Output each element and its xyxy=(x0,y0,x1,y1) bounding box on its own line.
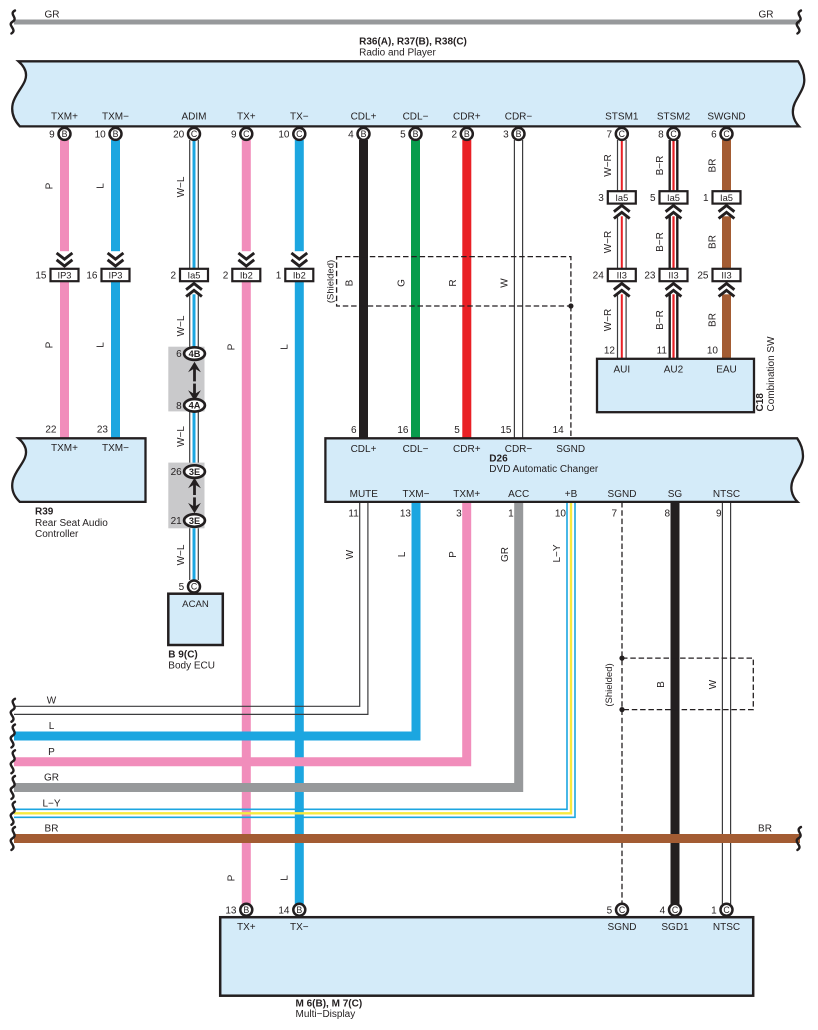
svg-text:TX−: TX− xyxy=(290,112,309,123)
connector 6 4B xyxy=(184,347,205,360)
svg-text:L: L xyxy=(280,875,291,881)
svg-text:7: 7 xyxy=(611,509,617,520)
svg-text:B: B xyxy=(345,279,356,286)
svg-text:Ia5: Ia5 xyxy=(188,270,201,280)
radio pin 5(B) CDL&#8722; xyxy=(410,128,422,140)
wire TXM+ P (radio to R39) xyxy=(60,140,69,438)
svg-text:IP3: IP3 xyxy=(58,270,72,280)
svg-text:CDR+: CDR+ xyxy=(453,112,481,123)
svg-text:1: 1 xyxy=(508,509,514,520)
svg-text:4: 4 xyxy=(660,905,666,916)
svg-text:GR: GR xyxy=(500,547,511,562)
svg-text:11: 11 xyxy=(348,509,359,520)
svg-text:21: 21 xyxy=(171,516,183,527)
svg-text:26: 26 xyxy=(171,467,183,478)
radio pin 8(C) STSM2 xyxy=(668,128,680,140)
svg-text:P: P xyxy=(227,874,238,881)
svg-text:GR: GR xyxy=(44,773,59,784)
break symbol W left xyxy=(11,699,15,722)
arrow into Ia5 xyxy=(612,204,631,217)
wire STSM1 W-R (C18 to radio) xyxy=(617,140,619,359)
svg-text:TX+: TX+ xyxy=(237,922,256,933)
break symbol BR left xyxy=(11,827,15,850)
svg-text:C: C xyxy=(619,129,626,139)
wire SGND shield drain (D26 to Multi-Display, dashed) xyxy=(621,502,623,904)
svg-text:MUTE: MUTE xyxy=(350,489,379,500)
svg-text:STSM1: STSM1 xyxy=(605,112,639,123)
svg-text:ACAN: ACAN xyxy=(182,599,209,610)
svg-text:CDR+: CDR+ xyxy=(453,444,481,455)
connector 1 Ia5 at x=726.5 xyxy=(713,191,741,203)
break symbol L left xyxy=(11,725,15,748)
svg-text:P: P xyxy=(45,182,56,189)
svg-text:Ib2: Ib2 xyxy=(293,270,306,280)
arrow into II3 xyxy=(664,282,683,295)
svg-text:C: C xyxy=(243,129,250,139)
svg-text:6: 6 xyxy=(176,349,182,360)
break symbol GR right xyxy=(797,11,801,34)
radio pin 3(B) CDR&#8722; xyxy=(513,128,525,140)
Multi-Display pin 14(B) TX- xyxy=(293,904,305,916)
wire SWGND BR (radio to C18) xyxy=(722,140,731,359)
arrow into II3 xyxy=(717,282,736,295)
connector 26 3E xyxy=(184,465,205,478)
svg-text:L: L xyxy=(280,344,291,350)
component C18 Combination SW xyxy=(597,359,754,412)
svg-text:L: L xyxy=(397,551,408,557)
svg-text:8: 8 xyxy=(664,509,670,520)
svg-text:BR: BR xyxy=(708,235,719,249)
svg-text:22: 22 xyxy=(45,425,57,436)
svg-text:13: 13 xyxy=(225,905,237,916)
svg-text:II3: II3 xyxy=(668,270,678,280)
svg-text:GR: GR xyxy=(45,10,60,21)
component B 9(C) Body ECU ACAN box xyxy=(168,594,223,645)
wire TX- L (radio to Multi-Display) xyxy=(295,140,304,904)
svg-text:9: 9 xyxy=(716,509,722,520)
svg-text:C: C xyxy=(619,905,626,915)
svg-text:SG: SG xyxy=(668,489,683,500)
svg-text:CDL−: CDL− xyxy=(403,444,429,455)
svg-text:5: 5 xyxy=(607,905,613,916)
svg-text:1: 1 xyxy=(711,905,717,916)
svg-text:SGND: SGND xyxy=(556,444,585,455)
svg-text:STSM2: STSM2 xyxy=(657,112,691,123)
junction dot shield top xyxy=(619,656,624,661)
connector block 3E/3E gray background xyxy=(168,463,204,529)
arrow into Ib2 (TX+) xyxy=(237,251,256,268)
radio pin 9(B) TXM+ xyxy=(59,128,71,140)
svg-text:5: 5 xyxy=(179,582,185,593)
svg-text:16: 16 xyxy=(86,271,98,282)
svg-text:C: C xyxy=(723,129,730,139)
svg-text:EAU: EAU xyxy=(716,364,737,375)
svg-text:3E: 3E xyxy=(189,467,200,477)
connector 8 4A xyxy=(184,399,205,412)
svg-text:15: 15 xyxy=(35,271,47,282)
svg-text:13: 13 xyxy=(400,509,412,520)
svg-text:Combination SW: Combination SW xyxy=(766,336,777,412)
svg-text:B: B xyxy=(516,129,522,139)
radio pin 2(B) CDR+ xyxy=(461,128,473,140)
wire STSM2 B-R (C18 to radio) xyxy=(669,140,671,359)
connector 1 Ib2 on TX- xyxy=(285,269,313,281)
connector 2 Ib2 on TX+ xyxy=(232,269,260,281)
svg-text:C: C xyxy=(191,582,198,592)
svg-text:12: 12 xyxy=(604,346,616,357)
svg-text:W−L: W−L xyxy=(176,544,187,565)
svg-text:4: 4 xyxy=(348,130,354,141)
Body ECU pin 5(C) ACAN xyxy=(188,581,200,593)
arrow into Ia5 xyxy=(717,204,736,217)
Multi-Display pin 1(C) NTSC xyxy=(721,904,733,916)
connector 3 Ia5 at x=621.8 xyxy=(608,191,636,203)
svg-text:16: 16 xyxy=(397,425,409,436)
svg-text:C: C xyxy=(672,905,679,915)
svg-text:4B: 4B xyxy=(189,349,201,359)
wire ADIM W-L (radio to Body ECU) xyxy=(189,140,191,354)
radio pin 10(B) TXM&#8722; xyxy=(110,128,122,140)
svg-text:20: 20 xyxy=(173,130,185,141)
svg-text:8: 8 xyxy=(658,130,664,141)
svg-text:TXM−: TXM− xyxy=(403,489,430,500)
break symbol P left xyxy=(11,750,15,773)
svg-text:10: 10 xyxy=(95,130,107,141)
connector 5 Ia5 at x=673.5 xyxy=(660,191,688,203)
wire +B L-Y (D26 to left break) xyxy=(14,502,567,809)
svg-text:B−R: B−R xyxy=(655,310,666,330)
svg-text:Ia5: Ia5 xyxy=(667,193,680,203)
arrow into II3 xyxy=(612,282,631,295)
Multi-Display pin 4(C) SGD1 xyxy=(669,904,681,916)
svg-text:4A: 4A xyxy=(189,401,201,411)
arrow into IP3 (TXM+) xyxy=(55,251,74,268)
svg-text:10: 10 xyxy=(555,509,567,520)
component R39 Rear Seat Audio Controller xyxy=(12,438,145,502)
svg-text:10: 10 xyxy=(707,346,719,357)
svg-text:3E: 3E xyxy=(189,516,200,526)
wire NTSC W (D26 to Multi-Display) xyxy=(721,502,723,904)
arrow into IP3 (TXM-) xyxy=(106,251,125,268)
svg-text:3: 3 xyxy=(503,130,509,141)
svg-text:B: B xyxy=(296,905,302,915)
shield box around CDL/CDR wires (dashed) xyxy=(337,257,571,306)
connector 25 II3 at x=726.5 xyxy=(713,269,741,281)
svg-text:W−L: W−L xyxy=(176,315,187,336)
svg-text:TX+: TX+ xyxy=(237,112,256,123)
svg-text:25: 25 xyxy=(697,271,709,282)
svg-text:SGD1: SGD1 xyxy=(661,922,689,933)
svg-text:SWGND: SWGND xyxy=(707,112,745,123)
svg-text:14: 14 xyxy=(553,425,565,436)
svg-text:B−R: B−R xyxy=(655,232,666,252)
component D26 DVD Automatic Changer xyxy=(325,438,803,502)
radio pin 10(C) TX&#8722; xyxy=(293,128,305,140)
break symbol GR left xyxy=(11,11,15,34)
svg-text:BR: BR xyxy=(708,159,719,173)
arrow up to 3E xyxy=(188,478,201,488)
wire TXM+ P (D26 to left break) xyxy=(14,502,467,762)
Multi-Display pin 13(B) TX+ xyxy=(240,904,252,916)
svg-text:R: R xyxy=(448,279,459,286)
svg-text:ACC: ACC xyxy=(508,489,529,500)
connector block 4B/4A gray background xyxy=(168,347,204,412)
svg-text:Ia5: Ia5 xyxy=(720,193,733,203)
svg-text:2: 2 xyxy=(223,271,229,282)
svg-text:L: L xyxy=(49,721,55,732)
svg-text:BR: BR xyxy=(45,824,59,835)
svg-text:B: B xyxy=(62,129,68,139)
svg-text:B: B xyxy=(413,129,419,139)
svg-text:ADIM: ADIM xyxy=(182,112,207,123)
radio pin 6(C) SWGND xyxy=(721,128,733,140)
svg-text:11: 11 xyxy=(657,346,668,357)
svg-text:DVD Automatic Changer: DVD Automatic Changer xyxy=(489,464,599,475)
junction dot shield drain xyxy=(568,303,573,308)
svg-text:D26: D26 xyxy=(489,453,508,464)
svg-text:24: 24 xyxy=(593,271,605,282)
svg-text:2: 2 xyxy=(451,130,457,141)
svg-text:B: B xyxy=(464,129,470,139)
wire shield drain to D26 pin 14 (dashed) xyxy=(570,306,572,438)
radio pin 4(B) CDL+ xyxy=(358,128,370,140)
svg-text:TX−: TX− xyxy=(290,922,309,933)
svg-text:15: 15 xyxy=(500,425,512,436)
svg-text:AUI: AUI xyxy=(613,364,630,375)
svg-text:CDL−: CDL− xyxy=(403,112,429,123)
arrow into Ia5 (ADIM) xyxy=(185,282,204,295)
svg-text:3: 3 xyxy=(598,193,604,204)
svg-text:L−Y: L−Y xyxy=(42,799,60,810)
svg-text:P: P xyxy=(45,341,56,348)
svg-text:B: B xyxy=(361,129,367,139)
svg-text:B: B xyxy=(243,905,249,915)
wire TX+ P (radio to Multi-Display) xyxy=(242,140,251,904)
connector 2 Ia5 on ADIM xyxy=(180,269,208,281)
svg-text:B 9(C): B 9(C) xyxy=(168,650,197,661)
svg-text:CDR−: CDR− xyxy=(505,444,533,455)
arrow into Ia5 xyxy=(664,204,683,217)
svg-text:Rear Seat Audio: Rear Seat Audio xyxy=(35,518,108,529)
wire ACC GR (D26 to left break) xyxy=(14,502,519,788)
break symbol BR right xyxy=(797,827,801,850)
wire CDL- G (radio to D26) xyxy=(411,140,420,438)
wire BR ground bus (bottom) xyxy=(14,834,800,843)
junction dot shield bottom xyxy=(619,707,624,712)
svg-text:GR: GR xyxy=(759,10,774,21)
wire CDL+ B (radio to D26) xyxy=(359,140,368,438)
arrow down to 4A xyxy=(188,390,201,400)
svg-text:1: 1 xyxy=(276,271,282,282)
arrow into Ib2 (TX-) xyxy=(290,251,309,268)
svg-text:23: 23 xyxy=(97,425,109,436)
svg-text:P: P xyxy=(48,747,55,758)
svg-text:W−L: W−L xyxy=(176,426,187,447)
svg-text:CDL+: CDL+ xyxy=(351,112,377,123)
svg-text:5: 5 xyxy=(400,130,406,141)
svg-text:W−R: W−R xyxy=(603,231,614,254)
svg-text:W: W xyxy=(47,696,57,707)
svg-text:CDL+: CDL+ xyxy=(351,444,377,455)
shield box around SG/NTSC wires (dashed) xyxy=(622,658,753,710)
svg-text:II3: II3 xyxy=(617,270,627,280)
svg-text:Ib2: Ib2 xyxy=(240,270,253,280)
wire CDR- W (radio to D26) xyxy=(513,140,515,438)
wire SG B (D26 to Multi-Display) xyxy=(671,502,680,904)
connector 16 IP3 on TXM- xyxy=(102,269,130,281)
wire CDR+ R (radio to D26) xyxy=(462,140,471,438)
svg-text:1: 1 xyxy=(703,193,709,204)
svg-text:II3: II3 xyxy=(721,270,731,280)
svg-text:AU2: AU2 xyxy=(664,364,684,375)
svg-text:G: G xyxy=(397,279,408,287)
svg-text:B: B xyxy=(656,681,667,688)
svg-text:B: B xyxy=(113,129,119,139)
svg-text:CDR−: CDR− xyxy=(505,112,533,123)
svg-text:SGND: SGND xyxy=(608,922,637,933)
svg-text:Ia5: Ia5 xyxy=(615,193,628,203)
svg-text:Multi−Display: Multi−Display xyxy=(296,1009,356,1020)
svg-text:L: L xyxy=(96,342,107,348)
svg-text:5: 5 xyxy=(650,193,656,204)
Multi-Display pin 5(C) SGND xyxy=(616,904,628,916)
svg-text:M 6(B), M 7(C): M 6(B), M 7(C) xyxy=(296,998,363,1009)
wire MUTE W (D26 to left break) xyxy=(14,502,360,706)
arrow up to 4B xyxy=(188,362,201,372)
svg-text:6: 6 xyxy=(351,425,357,436)
radio pin 9(C) TX+ xyxy=(240,128,252,140)
svg-text:W: W xyxy=(345,549,356,559)
connector 24 II3 at x=621.8 xyxy=(608,269,636,281)
svg-text:P: P xyxy=(448,551,459,558)
svg-text:BR: BR xyxy=(758,824,772,835)
svg-text:C18: C18 xyxy=(755,393,766,412)
svg-text:W: W xyxy=(500,278,511,288)
svg-text:C: C xyxy=(670,129,677,139)
svg-text:IP3: IP3 xyxy=(109,270,123,280)
component R36(A), R37(B), R38(C) Radio and Player xyxy=(12,61,804,126)
component M 6(B), M 7(C) Multi-Display xyxy=(220,917,753,996)
svg-text:23: 23 xyxy=(644,271,656,282)
svg-text:NTSC: NTSC xyxy=(713,489,740,500)
connector 21 3E xyxy=(184,514,205,527)
svg-text:R36(A), R37(B), R38(C): R36(A), R37(B), R38(C) xyxy=(359,37,467,48)
connector 15 IP3 on TXM+ xyxy=(51,269,79,281)
svg-text:(Shielded): (Shielded) xyxy=(604,663,615,706)
svg-text:TXM+: TXM+ xyxy=(453,489,480,500)
svg-text:TXM−: TXM− xyxy=(102,112,129,123)
svg-text:C: C xyxy=(296,129,303,139)
svg-text:Body ECU: Body ECU xyxy=(168,661,215,672)
svg-text:W−R: W−R xyxy=(603,154,614,177)
svg-text:L−Y: L−Y xyxy=(552,544,563,562)
svg-text:W−R: W−R xyxy=(603,309,614,332)
svg-text:BR: BR xyxy=(708,313,719,327)
svg-text:14: 14 xyxy=(278,905,290,916)
svg-text:W−L: W−L xyxy=(176,176,187,197)
svg-text:NTSC: NTSC xyxy=(713,922,740,933)
svg-text:C: C xyxy=(191,129,198,139)
svg-text:B−R: B−R xyxy=(655,156,666,176)
svg-text:L: L xyxy=(96,183,107,189)
svg-text:9: 9 xyxy=(49,130,55,141)
svg-text:+B: +B xyxy=(565,489,578,500)
svg-text:10: 10 xyxy=(278,130,290,141)
svg-text:5: 5 xyxy=(454,425,460,436)
svg-text:W: W xyxy=(708,679,719,689)
svg-text:TXM−: TXM− xyxy=(102,443,129,454)
svg-text:TXM+: TXM+ xyxy=(51,443,78,454)
svg-text:6: 6 xyxy=(711,130,717,141)
svg-text:SGND: SGND xyxy=(608,489,637,500)
svg-text:9: 9 xyxy=(231,130,237,141)
arrow down to 3E xyxy=(188,503,201,513)
break symbol GR left xyxy=(11,776,15,799)
svg-text:Radio and Player: Radio and Player xyxy=(359,48,436,59)
wire TXM- L (D26 to left break) xyxy=(14,502,416,736)
svg-text:3: 3 xyxy=(456,509,462,520)
connector 23 II3 at x=673.5 xyxy=(660,269,688,281)
svg-text:C: C xyxy=(723,905,730,915)
svg-text:TXM+: TXM+ xyxy=(51,112,78,123)
svg-text:8: 8 xyxy=(176,401,182,412)
svg-text:(Shielded): (Shielded) xyxy=(326,260,337,303)
radio pin 7(C) STSM1 xyxy=(616,128,628,140)
svg-text:P: P xyxy=(227,343,238,350)
svg-text:R39: R39 xyxy=(35,507,54,518)
wire TXM- L (radio to R39) xyxy=(111,140,120,438)
wire GR top bus xyxy=(14,20,800,25)
svg-text:2: 2 xyxy=(170,271,176,282)
svg-text:Controller: Controller xyxy=(35,529,79,540)
break symbol L-Y left xyxy=(11,802,15,825)
radio pin 20(C) ADIM xyxy=(188,128,200,140)
svg-text:7: 7 xyxy=(606,130,612,141)
